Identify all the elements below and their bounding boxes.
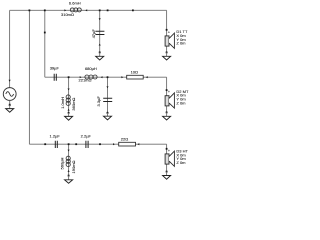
- svg-text:360mΩ: 360mΩ: [71, 98, 76, 111]
- wire left rail to generator: [9, 10, 11, 87]
- svg-text:310mΩ: 310mΩ: [61, 12, 74, 17]
- svg-text:1.0mH: 1.0mH: [60, 97, 65, 109]
- wire D1 column: [166, 10, 168, 52]
- inductor L1 6.6mH: [61, 1, 87, 18]
- capacitor C2 3.3uF (shunt): [96, 86, 112, 113]
- wire L5 shunt column: [68, 144, 70, 175]
- speaker D1 TT: [165, 29, 188, 48]
- ground C1: [96, 52, 104, 61]
- pin generator bottom: [9, 104, 11, 106]
- wire generator to ground: [9, 100, 11, 104]
- node top bus segment joint: [107, 9, 109, 11]
- svg-text:1.2µF: 1.2µF: [50, 134, 61, 139]
- node top bus segment joint 2: [132, 9, 134, 11]
- ground D1: [163, 52, 171, 61]
- ground D3: [163, 171, 171, 180]
- capacitor C1 47uF: [91, 18, 104, 45]
- wire rail 2 (bottom branch feed): [28, 10, 30, 144]
- svg-text:Z 0m: Z 0m: [176, 41, 186, 46]
- capacitor C5 2.2uF: [81, 134, 92, 148]
- node middle bus / C2 column: [107, 76, 109, 78]
- node bottom bus segment joint: [44, 143, 46, 145]
- inductor L2 680uH: [79, 66, 103, 83]
- resistor R2 22ohm: [113, 136, 139, 146]
- generator G1: [3, 88, 16, 101]
- ground D2: [163, 112, 171, 121]
- svg-text:221mΩ: 221mΩ: [79, 78, 92, 83]
- svg-text:Z 0m: Z 0m: [176, 101, 186, 106]
- wire bottom bus: [29, 143, 166, 145]
- node bottom bus segment joint 3: [99, 143, 101, 145]
- speaker D2 MT: [165, 89, 189, 108]
- node bottom bus segment joint 2: [75, 143, 77, 145]
- capacitor C4 1.2uF: [50, 134, 61, 148]
- svg-text:6.6mH: 6.6mH: [69, 1, 81, 6]
- wire rail 3 (middle branch feed): [44, 10, 46, 77]
- resistor R1 10ohm: [121, 69, 147, 79]
- speaker D3 HT: [165, 148, 188, 167]
- svg-text:47µF: 47µF: [91, 29, 96, 39]
- wire top bus: [10, 9, 167, 11]
- capacitor C3 39uF: [50, 65, 60, 81]
- node top bus / C1 column: [99, 9, 101, 11]
- node top bus / rail2: [29, 9, 31, 11]
- pin generator top: [9, 80, 11, 82]
- ground L3: [65, 112, 73, 120]
- wire D3 column: [166, 144, 168, 171]
- ground C2: [104, 112, 112, 120]
- svg-text:680µH: 680µH: [85, 66, 97, 71]
- svg-text:39µF: 39µF: [50, 65, 60, 70]
- wire C1 shunt column: [99, 10, 101, 52]
- inductor L3 1.0mH (shunt): [60, 89, 76, 111]
- svg-text:3.3µF: 3.3µF: [96, 96, 101, 107]
- wire middle bus: [45, 76, 167, 78]
- svg-text:10Ω: 10Ω: [131, 69, 138, 74]
- svg-text:2.2µF: 2.2µF: [81, 134, 92, 139]
- wire C2 shunt column: [107, 77, 109, 113]
- node top bus / rail3: [44, 9, 46, 11]
- ground L5: [65, 175, 73, 184]
- svg-text:560µH: 560µH: [59, 158, 64, 170]
- svg-text:190mΩ: 190mΩ: [71, 160, 76, 173]
- node rail3 segment joint: [44, 32, 46, 34]
- ground generator: [6, 104, 14, 112]
- svg-text:22Ω: 22Ω: [121, 136, 128, 141]
- svg-text:Z 0m: Z 0m: [176, 160, 186, 165]
- inductor L5 560uH (shunt): [59, 150, 76, 174]
- node bottom bus / L5 column: [68, 143, 70, 145]
- wire L3 shunt column: [68, 77, 70, 113]
- wire D2 column: [166, 77, 168, 112]
- node middle bus / L3 column: [68, 76, 70, 78]
